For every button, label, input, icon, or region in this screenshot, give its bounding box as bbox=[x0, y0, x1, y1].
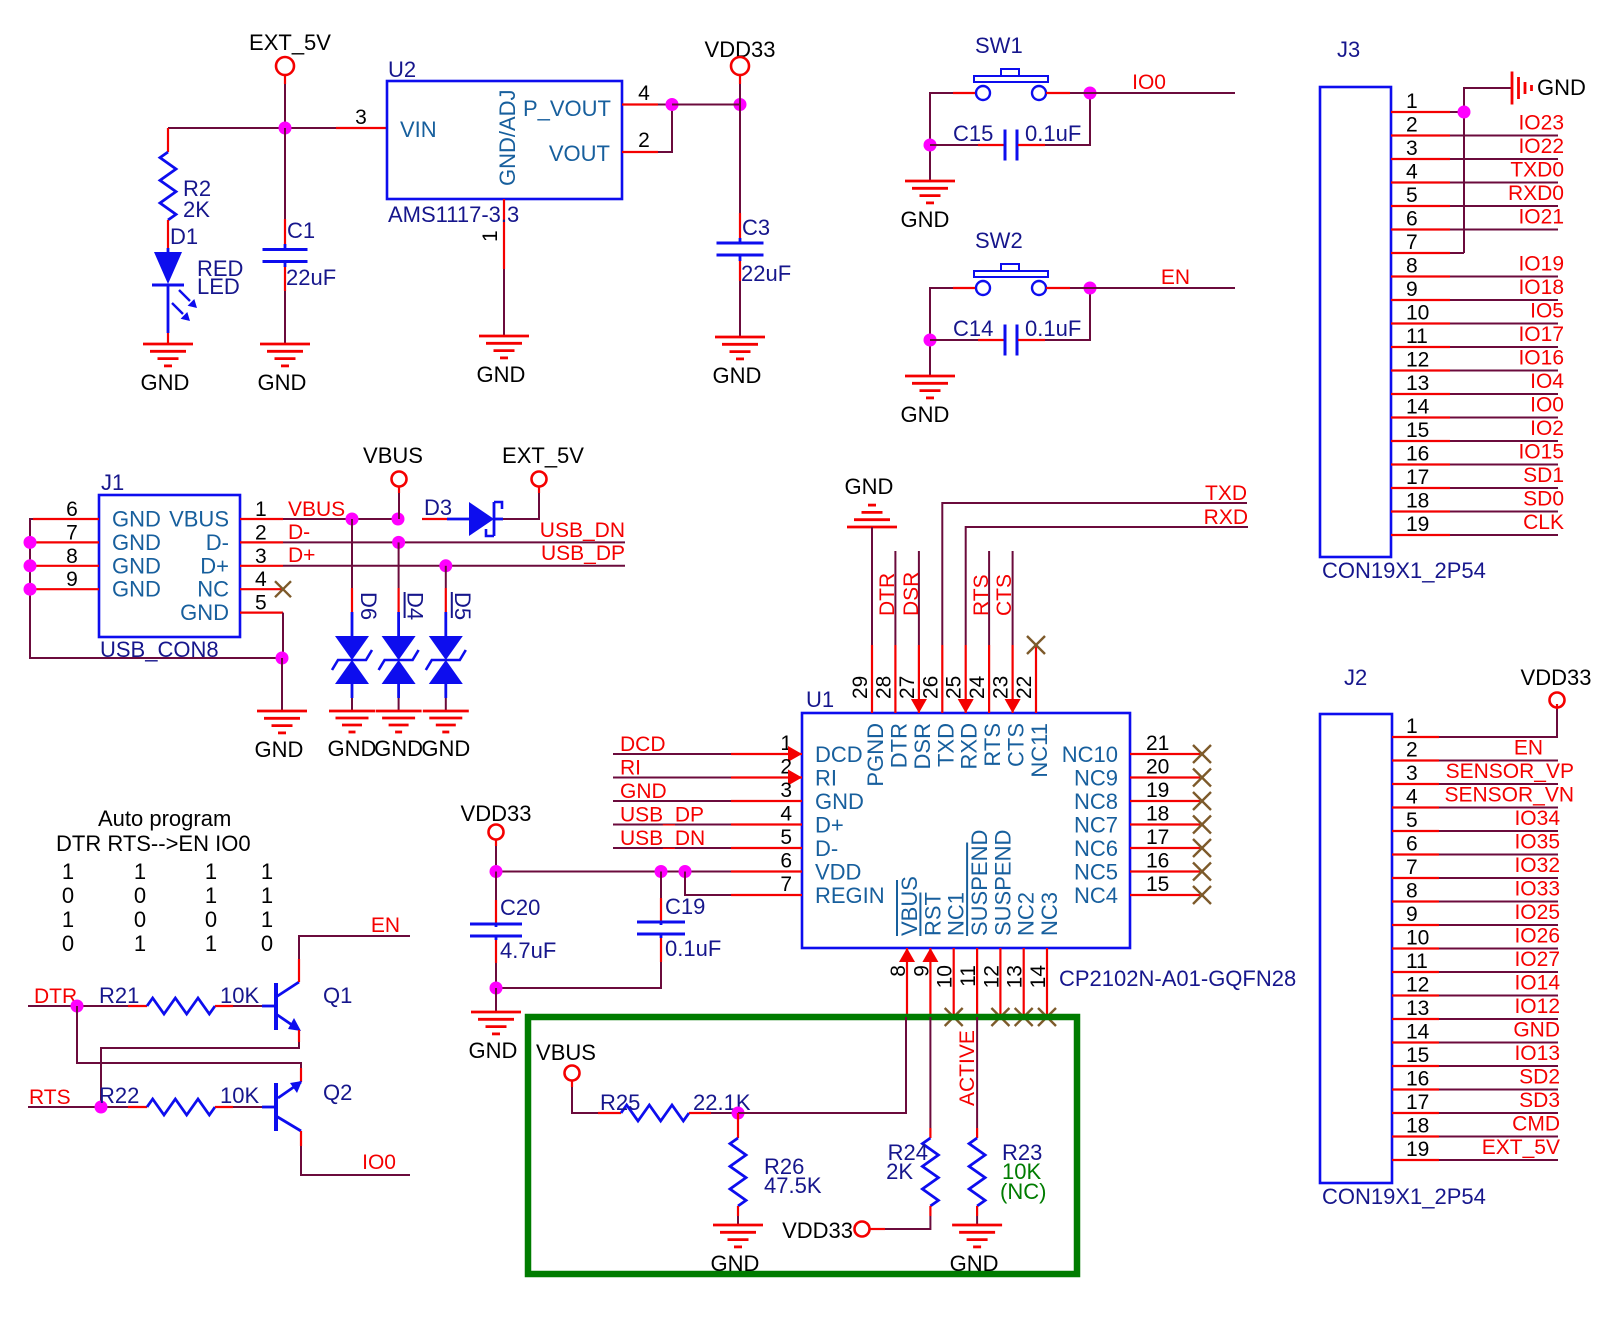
svg-text:2: 2 bbox=[255, 521, 267, 544]
pin J1 1 VBUS bbox=[169, 498, 283, 532]
capacitor C14 0.1uF bbox=[930, 288, 1090, 356]
wire DTR to Q2 emitter bbox=[77, 1006, 301, 1068]
wire J3 pin 1 net GND bbox=[1391, 90, 1464, 113]
wire J2 pin 9 net IO25 bbox=[1392, 901, 1560, 926]
svg-text:16: 16 bbox=[1146, 850, 1169, 873]
svg-text:27: 27 bbox=[896, 676, 919, 699]
svg-text:IO25: IO25 bbox=[1514, 901, 1560, 924]
svg-text:VBUS: VBUS bbox=[897, 876, 922, 936]
svg-text:1: 1 bbox=[479, 230, 502, 242]
svg-text:8: 8 bbox=[1406, 880, 1418, 903]
svg-text:13: 13 bbox=[1004, 965, 1027, 988]
svg-text:2: 2 bbox=[1406, 114, 1418, 137]
svg-text:3: 3 bbox=[780, 779, 792, 802]
svg-text:6: 6 bbox=[66, 498, 78, 521]
resistor R23 10K (NC) bbox=[969, 1128, 1046, 1225]
wire J1 pin 9 GND bbox=[33, 568, 161, 602]
svg-text:IO26: IO26 bbox=[1514, 925, 1560, 948]
svg-text:C3: C3 bbox=[742, 215, 770, 240]
wire J2 pin 12 net IO14 bbox=[1392, 972, 1560, 997]
wire net DSR vertical bbox=[900, 551, 923, 645]
ground D4 bbox=[374, 711, 423, 761]
svg-text:5: 5 bbox=[1406, 184, 1418, 207]
svg-text:1: 1 bbox=[205, 883, 217, 908]
capacitor C15 0.1uF bbox=[930, 93, 1090, 161]
svg-text:15: 15 bbox=[1146, 873, 1169, 896]
wire net RI to U1 bbox=[613, 757, 731, 780]
wire J3 GND bus pins 1-7 bbox=[1464, 88, 1512, 253]
wire U2 pin 4 P_VOUT bbox=[622, 82, 672, 105]
svg-text:(NC): (NC) bbox=[1000, 1179, 1046, 1204]
svg-text:2K: 2K bbox=[886, 1159, 913, 1184]
svg-text:GND: GND bbox=[421, 736, 470, 761]
svg-text:1: 1 bbox=[1406, 715, 1418, 738]
wire J3 pin 12 net IO16 bbox=[1391, 347, 1564, 372]
svg-text:GND: GND bbox=[255, 737, 304, 762]
wire J3 pin 19 net CLK bbox=[1391, 511, 1564, 536]
svg-text:12: 12 bbox=[1406, 974, 1429, 997]
pin U1 8 VBUS bbox=[887, 876, 922, 1017]
svg-text:GND: GND bbox=[180, 600, 229, 625]
svg-text:NC: NC bbox=[197, 577, 229, 602]
svg-text:CON19X1_2P54: CON19X1_2P54 bbox=[1322, 558, 1486, 583]
svg-text:NC8: NC8 bbox=[1074, 789, 1118, 814]
svg-text:CMD: CMD bbox=[1512, 1113, 1560, 1136]
wire J3 pin 18 net SD0 bbox=[1391, 488, 1564, 513]
svg-text:J2: J2 bbox=[1344, 665, 1367, 690]
svg-text:USB_DP: USB_DP bbox=[541, 542, 625, 565]
svg-text:SUSPEND: SUSPEND bbox=[967, 830, 992, 936]
power port EXT_5V mid bbox=[502, 443, 584, 487]
wire J2 pin 8 net IO33 bbox=[1392, 878, 1560, 903]
switch SW1 bbox=[974, 33, 1048, 100]
svg-text:7: 7 bbox=[780, 873, 792, 896]
svg-text:VBUS: VBUS bbox=[536, 1040, 596, 1065]
wire U1 pin 9 RST to R24 bbox=[929, 1017, 931, 1128]
junction EXT_5V rail bbox=[279, 122, 292, 135]
junction DTR bbox=[71, 1000, 84, 1013]
wire U2 pin 2 VOUT bbox=[622, 105, 672, 153]
svg-text:IO16: IO16 bbox=[1518, 347, 1564, 370]
svg-text:DSR: DSR bbox=[910, 723, 935, 769]
svg-text:REGIN: REGIN bbox=[815, 883, 885, 908]
LED D1 RED bbox=[152, 224, 243, 344]
svg-text:1: 1 bbox=[134, 931, 146, 956]
svg-text:11: 11 bbox=[1406, 325, 1428, 348]
svg-text:C19: C19 bbox=[665, 894, 705, 919]
svg-text:D+: D+ bbox=[200, 553, 229, 578]
pin U1 22 NC11 bbox=[1013, 645, 1052, 778]
wire Q1 collector net EN bbox=[299, 914, 410, 982]
svg-text:17: 17 bbox=[1406, 466, 1429, 489]
svg-text:4.7uF: 4.7uF bbox=[500, 938, 556, 963]
svg-text:SW2: SW2 bbox=[975, 228, 1023, 253]
ground R23 bbox=[950, 1225, 1002, 1276]
svg-text:2: 2 bbox=[1406, 739, 1418, 762]
transistor Q2 bbox=[262, 1068, 352, 1131]
junction USB_DP D5 bbox=[439, 559, 452, 572]
svg-text:NC11: NC11 bbox=[1027, 723, 1052, 778]
wire J2 pin 7 net IO32 bbox=[1392, 854, 1560, 879]
svg-text:5: 5 bbox=[780, 826, 792, 849]
svg-text:R21: R21 bbox=[99, 983, 139, 1008]
svg-text:5: 5 bbox=[1406, 809, 1418, 832]
svg-text:NC9: NC9 bbox=[1074, 766, 1118, 791]
pin U1 13 NC2 bbox=[1004, 892, 1039, 1026]
wire J2 pin 2 net EN bbox=[1392, 737, 1558, 762]
svg-text:U1: U1 bbox=[806, 687, 834, 712]
svg-text:4: 4 bbox=[780, 803, 792, 826]
svg-text:10K: 10K bbox=[220, 983, 259, 1008]
svg-text:GND: GND bbox=[258, 370, 307, 395]
wire net IO0 bbox=[1046, 71, 1235, 94]
svg-text:7: 7 bbox=[1406, 231, 1418, 254]
svg-text:17: 17 bbox=[1146, 826, 1169, 849]
svg-text:9: 9 bbox=[910, 965, 933, 977]
svg-text:Q1: Q1 bbox=[323, 983, 352, 1008]
svg-text:0: 0 bbox=[134, 907, 146, 932]
svg-text:0: 0 bbox=[134, 883, 146, 908]
svg-text:VBUS: VBUS bbox=[363, 443, 423, 468]
wire SW1 left to ground bbox=[930, 93, 975, 181]
svg-text:22: 22 bbox=[1013, 676, 1036, 699]
svg-text:IO12: IO12 bbox=[1514, 995, 1560, 1018]
resistor R2 2K bbox=[160, 128, 211, 248]
pin U1 17 NC6 bbox=[1074, 826, 1211, 861]
wire net GND to U1 bbox=[613, 780, 731, 803]
svg-text:GND: GND bbox=[112, 553, 161, 578]
svg-text:3: 3 bbox=[1406, 137, 1418, 160]
junction J1 bus pin7 bbox=[24, 536, 37, 549]
svg-text:20: 20 bbox=[1146, 756, 1169, 779]
svg-text:Q2: Q2 bbox=[323, 1080, 352, 1105]
svg-text:2: 2 bbox=[638, 129, 650, 152]
svg-text:IO14: IO14 bbox=[1514, 972, 1560, 995]
svg-text:IO5: IO5 bbox=[1530, 300, 1564, 323]
pin U1 29 PGND bbox=[849, 645, 888, 787]
resistor R25 22.1K bbox=[598, 1090, 751, 1121]
wire net RTS input bbox=[28, 1086, 128, 1109]
junction VDD33 C20 bbox=[490, 865, 503, 878]
svg-text:GND: GND bbox=[328, 736, 377, 761]
svg-text:GND: GND bbox=[374, 736, 423, 761]
svg-text:EN: EN bbox=[371, 914, 400, 937]
wire net DTR input bbox=[28, 985, 128, 1008]
svg-text:GND: GND bbox=[713, 363, 762, 388]
pin U1 10 NC1 bbox=[934, 892, 969, 1026]
wire SW2 left to ground bbox=[930, 288, 975, 376]
svg-text:GND: GND bbox=[112, 530, 161, 555]
wire net RXD bbox=[966, 506, 1248, 645]
pin U1 1 DCD bbox=[731, 732, 863, 767]
svg-text:2K: 2K bbox=[183, 197, 210, 222]
svg-text:USB_DP: USB_DP bbox=[620, 804, 704, 827]
svg-text:D-: D- bbox=[815, 836, 838, 861]
svg-text:GND: GND bbox=[112, 577, 161, 602]
svg-text:NC3: NC3 bbox=[1037, 892, 1062, 936]
svg-text:NC5: NC5 bbox=[1074, 860, 1118, 885]
svg-text:3: 3 bbox=[1406, 762, 1418, 785]
svg-text:IO22: IO22 bbox=[1518, 135, 1564, 158]
svg-text:19: 19 bbox=[1406, 513, 1429, 536]
svg-text:CTS: CTS bbox=[993, 574, 1016, 616]
svg-text:SD3: SD3 bbox=[1519, 1089, 1560, 1112]
svg-text:NC7: NC7 bbox=[1074, 813, 1118, 838]
svg-text:SENSOR_VN: SENSOR_VN bbox=[1444, 784, 1574, 807]
pin J1 2 D- bbox=[206, 521, 283, 555]
svg-text:16: 16 bbox=[1406, 443, 1429, 466]
pin J1 3 D+ bbox=[200, 545, 283, 579]
svg-text:RTS: RTS bbox=[29, 1086, 71, 1109]
resistor R21 10K bbox=[99, 983, 262, 1014]
svg-text:GND: GND bbox=[477, 362, 526, 387]
wire net EN bbox=[1046, 266, 1235, 289]
capacitor C20 4.7uF bbox=[470, 872, 556, 989]
svg-text:1: 1 bbox=[255, 498, 267, 521]
junction J1 bus pin8 bbox=[24, 559, 37, 572]
wire J2 pin 5 net IO34 bbox=[1392, 807, 1560, 832]
svg-text:CTS: CTS bbox=[1004, 723, 1029, 767]
svg-text:18: 18 bbox=[1146, 803, 1169, 826]
svg-text:RXD0: RXD0 bbox=[1508, 182, 1564, 205]
pin U1 2 RI bbox=[731, 756, 837, 791]
wire J2 pin 6 net IO35 bbox=[1392, 831, 1560, 856]
svg-text:DCD: DCD bbox=[815, 742, 863, 767]
pin U1 25 RXD bbox=[943, 645, 982, 769]
svg-text:DCD: DCD bbox=[620, 733, 666, 756]
wire J1 ground drop bbox=[281, 658, 283, 711]
svg-text:9: 9 bbox=[1406, 903, 1418, 926]
svg-text:9: 9 bbox=[1406, 278, 1418, 301]
ground C20 C19 bbox=[469, 1012, 521, 1063]
junction SW1 left bbox=[924, 139, 937, 152]
svg-text:GND: GND bbox=[469, 1038, 518, 1063]
svg-text:GND: GND bbox=[141, 370, 190, 395]
wire EXT_5V rail bbox=[168, 84, 336, 128]
svg-text:DSR: DSR bbox=[900, 572, 923, 616]
svg-text:IO35: IO35 bbox=[1514, 831, 1560, 854]
svg-text:0: 0 bbox=[62, 883, 74, 908]
svg-text:12: 12 bbox=[1406, 349, 1429, 372]
wire VBUS divider to U1 pin 8 bbox=[738, 1017, 906, 1113]
wire net RTS vertical bbox=[970, 551, 993, 645]
svg-text:SENSOR_VP: SENSOR_VP bbox=[1446, 760, 1574, 783]
svg-text:GND: GND bbox=[1537, 75, 1586, 100]
wire net ACTIVE bbox=[956, 1017, 979, 1128]
wire Q2 collector net IO0 bbox=[301, 1131, 410, 1175]
resistor R22 10K bbox=[99, 1083, 262, 1115]
pin U1 19 NC8 bbox=[1074, 779, 1211, 814]
svg-text:10K: 10K bbox=[220, 1083, 259, 1108]
svg-text:0.1uF: 0.1uF bbox=[665, 936, 721, 961]
ground C3 bbox=[713, 337, 765, 388]
svg-text:TXD: TXD bbox=[933, 723, 958, 767]
svg-text:RI: RI bbox=[815, 766, 837, 791]
svg-text:C1: C1 bbox=[287, 218, 315, 243]
wire J3 pin 16 net IO15 bbox=[1391, 441, 1564, 466]
junction J3 pin 1 bbox=[1458, 106, 1471, 119]
pin U1 5 D- bbox=[731, 826, 838, 861]
junction C20 C19 ground bbox=[490, 982, 503, 995]
svg-text:23: 23 bbox=[990, 676, 1013, 699]
pin J1 5 GND bbox=[180, 592, 283, 626]
wire J1 pin 6 GND bbox=[33, 498, 161, 532]
wire U2 pin 3 VIN bbox=[336, 106, 387, 129]
wire net DTR vertical bbox=[876, 551, 899, 645]
svg-text:IO0: IO0 bbox=[362, 1151, 396, 1174]
svg-text:DTR: DTR bbox=[876, 573, 899, 616]
junction RTS bbox=[95, 1101, 108, 1114]
svg-text:DTR RTS-->EN IO0: DTR RTS-->EN IO0 bbox=[56, 831, 251, 856]
pin U1 21 NC10 bbox=[1062, 732, 1211, 767]
wire J3 pin 5 net RXD0 bbox=[1391, 182, 1564, 207]
svg-text:15: 15 bbox=[1406, 1044, 1429, 1067]
svg-text:28: 28 bbox=[872, 676, 895, 699]
wire net USB_DN bbox=[283, 519, 625, 544]
svg-text:1: 1 bbox=[205, 931, 217, 956]
svg-text:CON19X1_2P54: CON19X1_2P54 bbox=[1322, 1184, 1486, 1209]
svg-text:SD2: SD2 bbox=[1519, 1066, 1560, 1089]
svg-text:GND: GND bbox=[112, 507, 161, 532]
wire J2 pin 16 net SD2 bbox=[1392, 1066, 1560, 1091]
note auto program table bbox=[56, 806, 273, 956]
pin U1 18 NC7 bbox=[1074, 803, 1211, 838]
power port VDD33 bbox=[705, 37, 776, 105]
wire J1 pin 7 GND bbox=[33, 521, 161, 555]
svg-text:16: 16 bbox=[1406, 1068, 1429, 1091]
svg-text:D+: D+ bbox=[288, 544, 315, 567]
pin U1 27 DSR bbox=[896, 645, 935, 769]
pin U1 12 SUSPEND bbox=[980, 830, 1015, 1026]
svg-text:IO13: IO13 bbox=[1514, 1042, 1560, 1065]
svg-text:11: 11 bbox=[957, 965, 980, 987]
svg-text:SD0: SD0 bbox=[1523, 488, 1564, 511]
svg-text:IO17: IO17 bbox=[1518, 323, 1564, 346]
svg-text:D+: D+ bbox=[815, 813, 844, 838]
wire Q1 emitter to RTS bbox=[101, 1030, 299, 1107]
svg-text:RTS: RTS bbox=[980, 723, 1005, 767]
wire J2 pin 10 net IO26 bbox=[1392, 925, 1560, 950]
wire net VBUS bbox=[283, 498, 398, 521]
wire J3 pin 2 net IO23 bbox=[1391, 112, 1564, 137]
pin U1 28 DTR bbox=[872, 645, 911, 768]
wire J3 pin 4 net TXD0 bbox=[1391, 159, 1564, 184]
svg-text:7: 7 bbox=[1406, 856, 1418, 879]
svg-text:D5: D5 bbox=[450, 592, 475, 620]
svg-text:19: 19 bbox=[1406, 1138, 1429, 1161]
wire net USB_DP bbox=[283, 542, 625, 567]
junction VBUS port bbox=[392, 513, 405, 526]
svg-text:AMS1117-3.3: AMS1117-3.3 bbox=[388, 202, 519, 227]
wire VDD33 net bbox=[672, 104, 740, 106]
svg-text:IO18: IO18 bbox=[1518, 276, 1564, 299]
pin U1 6 VDD bbox=[731, 850, 861, 885]
svg-text:GND: GND bbox=[1513, 1019, 1560, 1042]
junction SW2 left bbox=[924, 334, 937, 347]
svg-text:ACTIVE: ACTIVE bbox=[956, 1030, 979, 1106]
svg-text:11: 11 bbox=[1406, 950, 1428, 973]
svg-text:PGND: PGND bbox=[863, 723, 888, 787]
svg-text:USB_DN: USB_DN bbox=[620, 827, 705, 850]
svg-text:IO0: IO0 bbox=[1530, 394, 1564, 417]
pin U1 4 D+ bbox=[731, 803, 844, 838]
svg-text:RXD: RXD bbox=[1204, 506, 1248, 529]
ground J1 bbox=[255, 711, 307, 762]
svg-text:5: 5 bbox=[255, 592, 267, 615]
resistor R26 47.5K bbox=[730, 1113, 822, 1225]
svg-text:IO34: IO34 bbox=[1514, 807, 1560, 830]
ground D5 bbox=[421, 711, 470, 761]
svg-text:29: 29 bbox=[849, 676, 872, 699]
power port VBUS in box bbox=[536, 1040, 598, 1113]
svg-text:RTS: RTS bbox=[970, 574, 993, 616]
svg-text:EN: EN bbox=[1161, 266, 1190, 289]
wire J3 pin 15 net IO2 bbox=[1391, 417, 1564, 442]
svg-text:14: 14 bbox=[1027, 965, 1050, 989]
svg-text:CLK: CLK bbox=[1523, 511, 1564, 534]
power port VDD33 at J2 bbox=[1521, 665, 1592, 708]
svg-text:GND: GND bbox=[711, 1251, 760, 1276]
wire VDD net to U1 pin 6 bbox=[496, 871, 731, 873]
connector J2 CON19X1_2P54 bbox=[1320, 665, 1486, 1209]
ground C1 bbox=[258, 344, 310, 395]
svg-text:6: 6 bbox=[780, 850, 792, 873]
svg-text:1: 1 bbox=[261, 907, 273, 932]
wire J2 pin 11 net IO27 bbox=[1392, 948, 1560, 973]
svg-text:R25: R25 bbox=[600, 1090, 640, 1115]
regulator U2 AMS1117-3.3 bbox=[387, 57, 622, 199]
svg-text:21: 21 bbox=[1146, 732, 1169, 755]
svg-text:4: 4 bbox=[638, 82, 650, 105]
svg-text:10: 10 bbox=[1406, 927, 1429, 950]
svg-text:3: 3 bbox=[355, 106, 367, 129]
wire D3 to EXT_5V bbox=[503, 493, 539, 519]
wire ground C20 bbox=[495, 988, 497, 1012]
svg-text:9: 9 bbox=[66, 568, 78, 591]
ground SW1 bbox=[901, 181, 955, 232]
svg-text:IO0: IO0 bbox=[1132, 71, 1166, 94]
wire J3 pin 17 net SD1 bbox=[1391, 464, 1564, 489]
svg-text:IO32: IO32 bbox=[1514, 854, 1560, 877]
pin U1 15 NC4 bbox=[1074, 873, 1211, 908]
svg-text:13: 13 bbox=[1406, 372, 1429, 395]
note box (auto-reset network) bbox=[528, 1017, 1077, 1274]
svg-text:1: 1 bbox=[1406, 90, 1418, 113]
wire J2 pin 18 net CMD bbox=[1392, 1113, 1560, 1138]
junction VDD C19 bbox=[655, 865, 668, 878]
junction SW2 output bbox=[1084, 282, 1097, 295]
wire J2 pin 19 net EXT_5V bbox=[1392, 1136, 1560, 1161]
wire J1 ground bus bbox=[30, 519, 282, 658]
svg-text:1: 1 bbox=[261, 859, 273, 884]
svg-text:GND: GND bbox=[950, 1251, 999, 1276]
svg-text:Auto program: Auto program bbox=[98, 806, 231, 831]
wire PGND to ground bbox=[871, 527, 873, 645]
wire J3 pin 14 net IO0 bbox=[1391, 394, 1564, 419]
power port EXT_5V bbox=[249, 30, 331, 84]
svg-text:IO19: IO19 bbox=[1518, 253, 1564, 276]
wire J2 pin 15 net IO13 bbox=[1392, 1042, 1560, 1067]
svg-text:15: 15 bbox=[1406, 419, 1429, 442]
svg-text:VBUS: VBUS bbox=[169, 507, 229, 532]
switch SW2 bbox=[974, 228, 1048, 295]
svg-text:24: 24 bbox=[966, 675, 989, 699]
svg-text:NC1: NC1 bbox=[944, 892, 969, 936]
svg-text:NC4: NC4 bbox=[1074, 883, 1118, 908]
transistor Q1 bbox=[262, 982, 352, 1031]
svg-text:4: 4 bbox=[255, 568, 267, 591]
junction VDD33 net at U2 bbox=[666, 98, 679, 111]
